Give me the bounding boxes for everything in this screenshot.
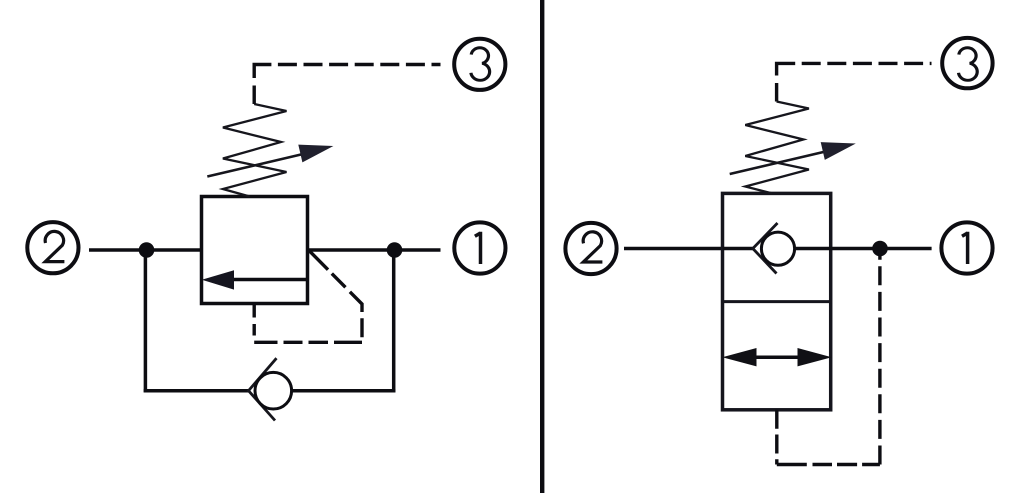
wire port2 to valve block [624,247,723,251]
dashed pilot loop from block bottom to junction [775,410,778,465]
valve block rectangle [723,193,831,409]
port label 3 (right) [959,48,978,81]
wire right drop from junction 1 [392,250,396,392]
port circle 3 (right) [942,38,992,88]
adjustment arrow through spring (right) [730,142,856,174]
wire left drop from junction 2 [144,250,148,392]
spring (right) [745,102,809,194]
node junction dot (right diagram) [872,241,888,257]
wire check valve to block right edge [795,247,831,251]
node junction dot right [387,242,403,258]
dashed pilot loop bottom [254,341,362,344]
block divider line [723,300,831,303]
dashed pilot riser to junction (right) [878,249,881,465]
dashed pilot loop bottom (right) [777,463,880,466]
check valve seat (V) [249,358,277,420]
check valve ball circle in block [761,232,794,265]
check valve seat (V) in block [753,223,778,274]
port label 3 (left) [471,48,490,81]
spring [223,104,287,197]
wire valve body to port 1 [308,248,441,252]
check valve ball circle [255,372,292,409]
adjustment arrow through spring [207,145,333,177]
wire block to port 1 (right) [831,247,932,251]
port label 2 (left) [45,231,64,261]
wire port2 to valve body [89,248,202,252]
port circle 1 (left) [454,222,505,273]
wire check valve to right drop [292,389,396,393]
port label 1 (right) [962,232,968,264]
port label 2 (right) [583,232,602,262]
flow arrow inside body (points left) [202,270,308,289]
divider line between the two schematics [540,0,544,493]
double-headed arrow in lower block [722,348,831,366]
port label 1 (left) [475,232,481,264]
wire bottom left to check valve [144,389,250,393]
dashed pilot loop vertical right [360,312,363,342]
valve body square [202,197,308,304]
port circle 2 (right) [565,223,616,274]
dashed pilot loop under valve body [309,251,362,313]
port circle 1 (right) [941,222,992,273]
dashed pilot line spring-top to port 3 [254,65,440,105]
port circle 2 (left) [27,222,78,273]
dashed pilot loop vertical left [252,304,255,343]
node junction dot left [139,242,155,258]
dashed pilot line spring-top to port 3 (right) [777,63,932,101]
port circle 3 (left) [454,39,505,90]
wire into check valve seat [723,247,754,251]
